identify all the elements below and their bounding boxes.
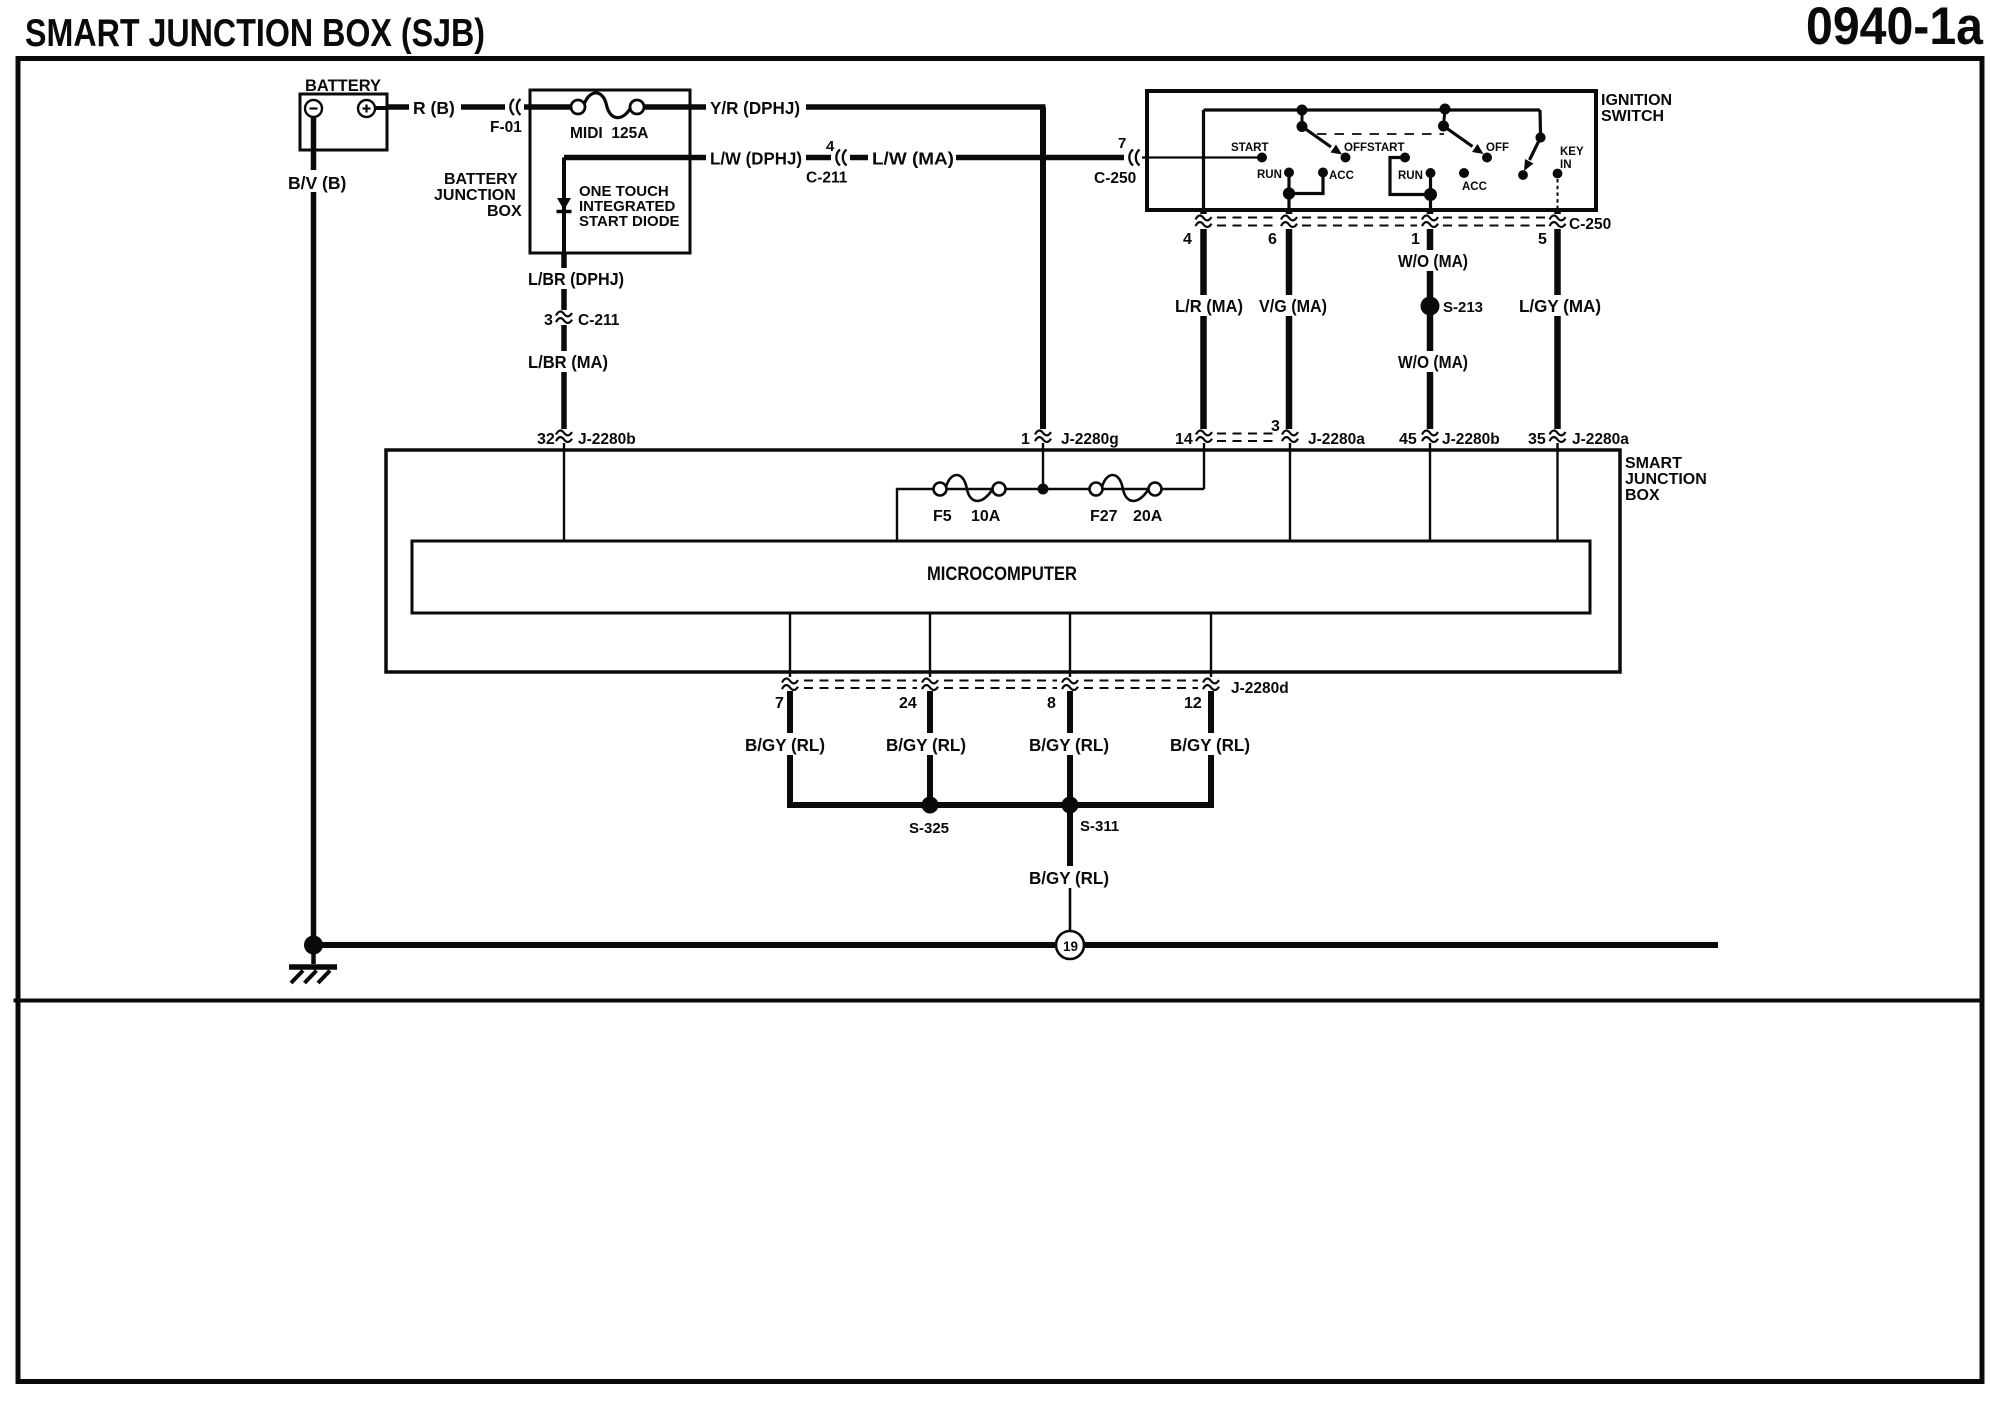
svg-text:35: 35 (1528, 431, 1546, 448)
svg-text:1: 1 (1411, 231, 1420, 248)
svg-text:B/GY (RL): B/GY (RL) (1029, 735, 1109, 755)
wire label B/V (B) (286, 170, 346, 193)
svg-text:3: 3 (544, 312, 553, 329)
wire label W/O (MA) upper (1394, 250, 1472, 271)
svg-text:ACC: ACC (1462, 181, 1487, 193)
wire fuse to Y/R exit (645, 104, 1046, 110)
svg-text:BOX: BOX (1625, 487, 1660, 504)
svg-text:SWITCH: SWITCH (1601, 108, 1664, 125)
svg-text:B/GY (RL): B/GY (RL) (1170, 735, 1250, 755)
ignition internal top rail (1204, 108, 1541, 111)
connector J-2280d pin 24 (920, 677, 941, 692)
wire ignition pin5 down (1554, 210, 1561, 429)
connector C-250 pin 5 (1547, 214, 1568, 229)
key-in switch pivot (1538, 110, 1542, 134)
svg-text:SMART JUNCTION BOX (SJB): SMART JUNCTION BOX (SJB) (25, 12, 485, 55)
svg-text:24: 24 (899, 695, 917, 712)
wire label W/O (MA) lower (1394, 351, 1472, 372)
connector J-2280a pin 35 (1547, 429, 1568, 444)
svg-text:J-2280b: J-2280b (1442, 431, 1500, 448)
ignition pin1 internal wire (1429, 195, 1432, 211)
wire SJB fuse row (897, 489, 1204, 541)
connector J-2280g pin 1 (1033, 429, 1054, 444)
svg-text:L/R (MA): L/R (MA) (1175, 296, 1243, 316)
svg-text:4: 4 (1183, 231, 1192, 248)
svg-text:B/GY (RL): B/GY (RL) (745, 735, 825, 755)
svg-text:12: 12 (1184, 695, 1202, 712)
node battery ground junction (304, 936, 323, 955)
contact OFF left (1341, 153, 1350, 162)
switch blade left (1302, 127, 1331, 148)
wire B/V battery negative to ground (311, 118, 317, 945)
svg-text:START: START (1231, 142, 1268, 154)
wire S-311 down thin (1069, 888, 1072, 931)
wire label L/W (DPHJ) (706, 148, 806, 169)
svg-text:J-2280b: J-2280b (578, 431, 636, 448)
svg-text:KEY: KEY (1560, 146, 1584, 158)
svg-text:J-2280a: J-2280a (1308, 431, 1365, 448)
wire label B/GY (RL) 4 (1166, 733, 1254, 755)
svg-text:L/BR (MA): L/BR (MA) (528, 352, 608, 372)
wire label V/G (MA) (1255, 295, 1331, 316)
contact RUN left (1285, 168, 1294, 177)
microcomputer box (412, 541, 1590, 613)
svg-text:8: 8 (1047, 695, 1056, 712)
ignition pin6 internal wire (1287, 194, 1290, 211)
wire SJB internal L/BR stub (563, 443, 565, 541)
svg-text:J-2280d: J-2280d (1231, 680, 1289, 697)
wire label L/BR (DPHJ) (524, 268, 628, 289)
wire label L/W (MA) (868, 148, 956, 169)
battery junction box (530, 90, 690, 253)
splice S-213 (1421, 297, 1440, 316)
wire microcomputer out 2 (929, 613, 931, 678)
connector J-2280d pin 8 (1060, 677, 1081, 692)
fuse F27 20A (1090, 475, 1163, 525)
svg-text:L/GY (MA): L/GY (MA) (1519, 296, 1601, 316)
wire L/BR battery junction box down (561, 253, 567, 429)
wire ignition pin4 down (1200, 210, 1207, 429)
wire label B/GY (RL) 3 (1025, 733, 1113, 755)
battery B1 (300, 94, 387, 150)
switch blade right pivot (1444, 109, 1446, 126)
svg-text:RUN: RUN (1257, 169, 1282, 181)
svg-text:Y/R (DPHJ): Y/R (DPHJ) (710, 98, 800, 118)
wire label L/GY (MA) (1515, 295, 1605, 316)
svg-text:BATTERY: BATTERY (444, 171, 518, 188)
svg-text:F-01: F-01 (490, 119, 522, 136)
svg-text:B/V (B): B/V (B) (288, 173, 346, 193)
node rail dot left (1297, 105, 1307, 115)
wire label B/GY (RL) 2 (882, 733, 970, 755)
svg-text:IGNITION: IGNITION (1601, 92, 1672, 109)
contact ACC right (1460, 169, 1469, 178)
svg-text:7: 7 (1118, 135, 1126, 152)
svg-text:0940-1a: 0940-1a (1806, 0, 1983, 56)
wire label L/BR (MA) (524, 351, 612, 372)
svg-text:BATTERY: BATTERY (305, 76, 382, 95)
svg-text:S-213: S-213 (1443, 299, 1483, 316)
splice S-311 (1062, 797, 1079, 814)
node fuse junction (1038, 484, 1049, 495)
connector J-2280d dashed row (804, 681, 1198, 689)
svg-text:20A: 20A (1133, 508, 1163, 525)
wire ignition pin6 down (1286, 210, 1293, 429)
svg-text:L/W (DPHJ): L/W (DPHJ) (710, 149, 802, 169)
connector F-01 (505, 98, 524, 116)
contact START left (1258, 153, 1267, 162)
contact RUN right (1426, 169, 1435, 178)
contact START right (1401, 153, 1410, 162)
wire microcomputer out 1 (789, 613, 791, 678)
ground bus wire (314, 942, 1719, 948)
svg-text:F27: F27 (1090, 508, 1118, 525)
svg-text:45: 45 (1399, 431, 1417, 448)
wire label B/GY (RL) 1 (741, 733, 829, 755)
svg-text:MIDI 125A: MIDI 125A (570, 125, 648, 142)
wire ignition pin1 down (1427, 210, 1434, 429)
svg-text:BOX: BOX (487, 203, 522, 220)
wire R (B) battery to BJB (387, 104, 578, 110)
node pin1 junction (1425, 189, 1437, 201)
wire vertical down to J-2280g (1040, 107, 1046, 429)
svg-text:R (B): R (B) (413, 98, 455, 118)
ground symbol (289, 945, 337, 983)
wire SJB internal V/G stub (1289, 443, 1291, 541)
connector J-2280d pin 12 (1201, 677, 1222, 692)
connector C-250 pin 7 (1124, 149, 1143, 167)
fuse F5 10A (933, 475, 1006, 525)
svg-text:START DIODE: START DIODE (579, 213, 680, 230)
wire SJB internal pin14 stub (1203, 443, 1205, 489)
svg-text:L/W (MA): L/W (MA) (872, 149, 954, 169)
wire B/GY 1 down (787, 691, 793, 808)
svg-text:ACC: ACC (1329, 170, 1354, 182)
svg-text:W/O (MA): W/O (MA) (1398, 352, 1468, 372)
wire SJB internal W/O stub (1429, 443, 1431, 541)
wire label B/GY (RL) bottom (1025, 866, 1113, 888)
connector C-250 pin 6 (1279, 214, 1300, 229)
svg-text:J-2280a: J-2280a (1572, 431, 1629, 448)
svg-text:S-311: S-311 (1080, 818, 1119, 835)
wire key-in to pin5 dashed (1557, 179, 1559, 210)
connector J-2280a pin 14 (1194, 429, 1215, 444)
svg-text:W/O (MA): W/O (MA) (1398, 251, 1468, 271)
svg-text:5: 5 (1538, 231, 1547, 248)
svg-text:IN: IN (1560, 159, 1572, 171)
svg-text:7: 7 (775, 695, 784, 712)
connector C-211 pin 4 (831, 149, 850, 167)
ground ref circle 19 (1056, 931, 1084, 959)
svg-text:MICROCOMPUTER: MICROCOMPUTER (927, 564, 1077, 585)
connector J-2280a pin 3 (1280, 429, 1301, 444)
wire label L/R (MA) (1171, 295, 1247, 316)
svg-text:C-250: C-250 (1094, 170, 1136, 187)
mechanical link dashed (1317, 133, 1444, 135)
connector J-2280b pin 32 (554, 429, 575, 444)
svg-text:START: START (1367, 142, 1404, 154)
svg-text:JUNCTION: JUNCTION (1625, 471, 1707, 488)
svg-text:S-325: S-325 (909, 820, 949, 837)
svg-text:RUN: RUN (1398, 170, 1423, 182)
svg-text:1: 1 (1021, 431, 1030, 448)
svg-text:B/GY (RL): B/GY (RL) (1029, 868, 1109, 888)
wire label Y/R (DPHJ) (706, 97, 806, 118)
svg-text:F5: F5 (933, 508, 952, 525)
ignition switch box U1 (1147, 91, 1596, 210)
wire SJB internal L/GY stub (1556, 443, 1558, 541)
wire SJB internal J-2280g stub (1042, 443, 1044, 489)
svg-text:J-2280g: J-2280g (1061, 431, 1119, 448)
wire thin into ignition switch (1142, 156, 1262, 158)
smart junction box (386, 450, 1620, 672)
wire microcomputer out 3 (1069, 613, 1071, 678)
wire RUN-ACC link left (1289, 173, 1323, 194)
wire S-311 down thick (1067, 805, 1073, 866)
contact KEY IN (1553, 169, 1562, 178)
svg-text:32: 32 (537, 431, 555, 448)
svg-text:SMART: SMART (1625, 455, 1682, 472)
svg-text:6: 6 (1268, 231, 1277, 248)
node rail dot right (1440, 104, 1450, 114)
contact ACC left (1319, 168, 1328, 177)
page frame divider (16, 999, 1983, 1003)
svg-text:V/G (MA): V/G (MA) (1259, 296, 1327, 316)
wire microcomputer out 4 (1210, 613, 1212, 678)
connector C-250 pin 4 (1193, 214, 1214, 229)
switch blade right (1444, 126, 1473, 147)
connector C-211 pin 3 (554, 310, 575, 325)
connector J-2280b pin 45 (1420, 429, 1441, 444)
svg-text:JUNCTION: JUNCTION (434, 187, 516, 204)
svg-text:OFF: OFF (1344, 142, 1367, 154)
wire B/GY 4 down (1208, 691, 1214, 808)
wire ground link bus (790, 802, 1211, 808)
wire B/GY 3 down (1067, 691, 1073, 808)
key-in switch blade (1530, 138, 1541, 161)
svg-text:C-211: C-211 (578, 312, 620, 329)
ignition pin4 internal wire (1202, 110, 1205, 210)
wire START-RUN link right (1390, 158, 1431, 195)
connector J-2280a dashed row (1217, 434, 1277, 442)
svg-text:14: 14 (1175, 431, 1193, 448)
diode one touch integrated start (557, 158, 572, 254)
splice S-325 (922, 797, 939, 814)
connector C-250 pin 1 (1420, 214, 1441, 229)
connector C-250 dashed row (1217, 218, 1545, 226)
switch blade left pivot (1301, 110, 1304, 127)
wire label R (B) (409, 97, 461, 118)
fuse MIDI 125A (570, 93, 648, 142)
svg-text:OFF: OFF (1486, 142, 1509, 154)
contact OFF right (1483, 153, 1492, 162)
svg-text:10A: 10A (971, 508, 1001, 525)
connector J-2280d pin 7 (780, 677, 801, 692)
node pin6 junction (1283, 188, 1294, 199)
wire L/W from diode node to C-250 (564, 155, 1124, 161)
svg-text:3: 3 (1271, 418, 1280, 435)
svg-text:L/BR (DPHJ): L/BR (DPHJ) (528, 269, 624, 289)
svg-text:B/GY (RL): B/GY (RL) (886, 735, 966, 755)
svg-text:4: 4 (826, 138, 835, 155)
wire B/GY 2 down (927, 691, 933, 808)
svg-text:C-250: C-250 (1569, 216, 1611, 233)
svg-text:C-211: C-211 (806, 170, 848, 187)
svg-text:19: 19 (1063, 939, 1078, 954)
